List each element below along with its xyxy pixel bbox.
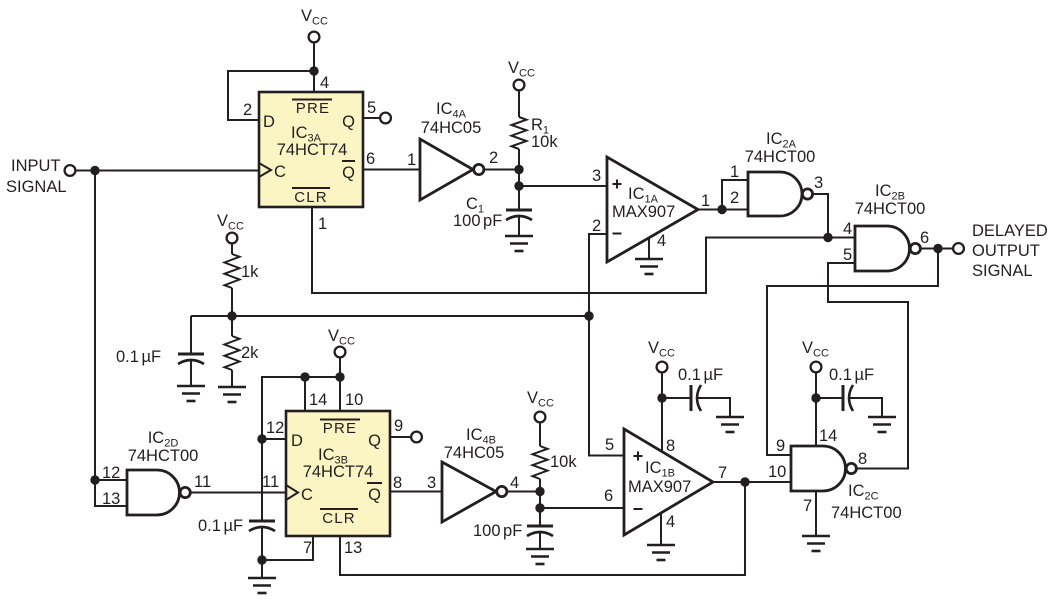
- svg-text:7: 7: [718, 464, 727, 482]
- svg-text:100pF: 100pF: [453, 212, 502, 230]
- svg-text:2: 2: [730, 189, 739, 207]
- resistor 10k (lower): [533, 423, 548, 526]
- svg-text:VCC: VCC: [527, 389, 554, 410]
- wire IC2C pin14: [815, 398, 817, 446]
- ground (IC3B pin7): [248, 578, 276, 593]
- svg-text:CLR: CLR: [294, 189, 328, 206]
- svg-text:5: 5: [843, 246, 852, 264]
- svg-text:IC4A: IC4A: [436, 100, 467, 121]
- svg-text:0.1µF: 0.1µF: [678, 366, 723, 384]
- node Vcc bypass junction (IC2C): [811, 393, 820, 402]
- svg-text:1k: 1k: [241, 263, 259, 281]
- svg-text:0.1µF: 0.1µF: [198, 517, 243, 535]
- wire D feedback loop: [228, 71, 314, 120]
- wire input vertical to IC2D: [95, 171, 127, 507]
- svg-text:CLR: CLR: [322, 510, 356, 527]
- capacitor 0.1 uF (IC2C bypass): [816, 385, 882, 417]
- svg-text:74HC05: 74HC05: [421, 119, 482, 137]
- wire IC2A output to wireA: [813, 194, 828, 238]
- terminal Q2 open: [411, 432, 422, 443]
- inverter IC4A 74HC05: [420, 100, 484, 200]
- svg-text:0.1µF: 0.1µF: [116, 348, 161, 366]
- svg-text:74HCT00: 74HCT00: [128, 447, 199, 465]
- svg-text:VCC: VCC: [217, 212, 244, 233]
- wire Q1bar to IC4A: [363, 169, 420, 171]
- svg-text:11: 11: [262, 473, 279, 491]
- capacitor 100 pF (lower): [527, 526, 553, 549]
- node IC2A input junction: [717, 205, 726, 214]
- svg-text:14: 14: [819, 427, 837, 445]
- svg-text:3: 3: [814, 174, 823, 192]
- terminal output open: [953, 243, 964, 254]
- svg-text:3: 3: [427, 474, 436, 492]
- NAND gate IC2D 74HCT00: [127, 429, 198, 515]
- svg-text:VCC: VCC: [802, 339, 829, 360]
- wire Q2 stub: [390, 436, 411, 438]
- svg-text:D: D: [263, 113, 275, 131]
- svg-text:2k: 2k: [241, 344, 259, 362]
- svg-text:1: 1: [318, 215, 327, 233]
- svg-text:9: 9: [394, 417, 403, 435]
- ground (IC1A pin4): [635, 259, 663, 274]
- node divider junction: [227, 311, 236, 320]
- wire CLR2 to IC1B output: [340, 482, 745, 575]
- wire to IC1B pin 6: [540, 507, 624, 509]
- wire IC2D pin12 stub: [95, 479, 127, 481]
- node pin14 junction: [300, 372, 309, 381]
- NAND gate IC2C 74HCT00: [791, 446, 902, 522]
- wire reference node horizontal: [191, 315, 589, 317]
- svg-text:PRE: PRE: [296, 100, 330, 117]
- svg-text:Q: Q: [342, 164, 355, 182]
- wire IC1B pin8: [661, 398, 663, 452]
- ground (under C1): [505, 236, 533, 251]
- node input junction: [90, 166, 99, 175]
- ground (under 100pF): [526, 549, 554, 564]
- svg-text:1: 1: [730, 163, 739, 181]
- svg-text:6: 6: [366, 150, 375, 168]
- comparator IC1A MAX907: [607, 157, 698, 262]
- wire IC4B out to 10k node: [507, 491, 540, 493]
- svg-text:8: 8: [858, 450, 867, 468]
- wire Vcc stub: [815, 373, 817, 398]
- svg-text:6: 6: [604, 487, 613, 505]
- node 10k bottom junction: [535, 487, 544, 496]
- svg-text:74HCT74: 74HCT74: [277, 141, 348, 159]
- flip-flop IC3A 74HCT74: [259, 92, 363, 207]
- wire input horizontal to IC3A clock: [76, 170, 259, 172]
- comparator IC1B MAX907: [624, 429, 713, 535]
- svg-text:13: 13: [102, 490, 120, 508]
- node pin10 junction: [335, 372, 344, 381]
- svg-text:74HCT00: 74HCT00: [745, 148, 816, 166]
- svg-text:4: 4: [843, 220, 852, 238]
- svg-text:INPUT: INPUT: [11, 157, 61, 175]
- capacitor 0.1 uF (divider): [178, 354, 204, 386]
- wire Q2bar to IC4B: [390, 491, 442, 493]
- svg-text:74HC05: 74HC05: [444, 444, 505, 462]
- svg-text:Q: Q: [368, 486, 381, 504]
- resistor 2k: [225, 316, 240, 387]
- svg-text:SIGNAL: SIGNAL: [972, 262, 1033, 280]
- svg-text:VCC: VCC: [648, 339, 675, 360]
- svg-text:VCC: VCC: [328, 327, 355, 348]
- svg-text:VCC: VCC: [508, 59, 535, 80]
- svg-text:OUTPUT: OUTPUT: [972, 242, 1040, 260]
- wire ground stub: [261, 560, 263, 578]
- svg-text:10: 10: [345, 391, 363, 409]
- node output junction: [933, 244, 942, 253]
- node IC2D input junction: [90, 475, 99, 484]
- svg-text:D: D: [291, 432, 303, 450]
- resistor 1k: [225, 244, 240, 316]
- wire IC1A pin2 to reference and IC1B pin5: [589, 234, 624, 456]
- svg-text:74HCT00: 74HCT00: [831, 504, 902, 522]
- node R1 bottom junction: [514, 165, 523, 174]
- wire IC2C output feedback to IC2B pin5: [828, 263, 908, 469]
- svg-text:10k: 10k: [531, 133, 558, 151]
- svg-text:9: 9: [776, 437, 785, 455]
- resistor R1 10k: [512, 91, 527, 210]
- ground (IC1B bypass): [716, 417, 744, 432]
- node Vcc bypass junction (IC1B): [657, 393, 666, 402]
- ground (IC1B pin4): [647, 545, 675, 560]
- svg-text:2: 2: [243, 101, 252, 119]
- svg-text:74HCT74: 74HCT74: [303, 463, 374, 481]
- svg-text:SIGNAL: SIGNAL: [6, 178, 67, 196]
- svg-text:IC2C: IC2C: [848, 482, 879, 503]
- svg-text:11: 11: [194, 473, 211, 491]
- wire Q1 output stub: [363, 117, 380, 119]
- wire IC1B ground stub: [660, 513, 662, 545]
- wire IC2B output: [921, 248, 954, 250]
- NAND gate IC2A 74HCT00: [745, 130, 816, 216]
- node C1 top junction: [514, 181, 523, 190]
- wire IC2B output feedback to IC2C pin9: [767, 249, 938, 456]
- svg-text:MAX907: MAX907: [612, 203, 675, 221]
- wire IC2C pin7: [815, 491, 817, 536]
- wire IC2A pin1 loop: [722, 180, 748, 210]
- svg-text:4: 4: [666, 513, 675, 531]
- node ground junction: [257, 555, 266, 564]
- svg-text:VCC: VCC: [301, 7, 328, 28]
- svg-text:12: 12: [266, 419, 284, 437]
- svg-text:8: 8: [666, 437, 675, 455]
- NAND gate IC2B 74HCT00: [855, 182, 926, 271]
- node D2 junction: [257, 434, 266, 443]
- wire pin 4 PRE: [313, 71, 315, 92]
- svg-text:Q: Q: [368, 432, 381, 450]
- svg-text:Q: Q: [342, 113, 355, 131]
- wire IC1B output: [713, 481, 791, 483]
- svg-text:5: 5: [367, 99, 376, 117]
- wire Vcc to PRE junction: [313, 43, 315, 71]
- svg-text:13: 13: [344, 539, 362, 557]
- wire Vcc stub: [661, 373, 663, 398]
- node reference to IC1A/IC1B junction: [584, 311, 593, 320]
- svg-text:8: 8: [393, 474, 402, 492]
- capacitor C1 100 pF: [506, 210, 532, 236]
- svg-text:4: 4: [657, 232, 666, 250]
- svg-text:3: 3: [592, 167, 601, 185]
- svg-text:0.1µF: 0.1µF: [829, 366, 874, 384]
- wire IC4A output to R1/C1 node: [484, 169, 519, 171]
- svg-text:10k: 10k: [550, 453, 577, 471]
- svg-text:74HCT00: 74HCT00: [855, 200, 926, 218]
- ground (IC2C bypass): [868, 417, 896, 432]
- svg-text:7: 7: [303, 539, 312, 557]
- terminal Q1 open: [380, 113, 391, 124]
- node IC1B output junction: [740, 477, 749, 486]
- node wireA/IC2A junction: [823, 233, 832, 242]
- input terminal: [65, 165, 76, 176]
- capacitor 0.1 uF (IC3B decoupling): [249, 521, 275, 560]
- ground (under 0.1uF divider): [177, 386, 205, 401]
- wire D2 stub: [262, 438, 286, 440]
- svg-text:1: 1: [701, 192, 710, 210]
- ground (IC2C pin7): [802, 536, 830, 551]
- svg-text:4: 4: [320, 74, 329, 92]
- node 100pF top junction: [535, 503, 544, 512]
- capacitor 0.1 uF (IC1B bypass): [662, 385, 730, 417]
- flip-flop IC3B 74HCT74: [286, 411, 390, 536]
- svg-text:12: 12: [102, 464, 120, 482]
- svg-text:6: 6: [920, 229, 929, 247]
- svg-text:DELAYED: DELAYED: [972, 222, 1048, 240]
- svg-text:2: 2: [489, 149, 498, 167]
- wire to IC1A pin 3: [519, 185, 607, 187]
- svg-text:C: C: [274, 163, 286, 181]
- svg-text:4: 4: [510, 474, 519, 492]
- wire pin 7 to ground node: [262, 536, 313, 560]
- svg-text:2: 2: [592, 217, 601, 235]
- wire IC2D output to clock2: [190, 492, 286, 494]
- svg-text:1: 1: [407, 151, 416, 169]
- svg-text:5: 5: [605, 436, 614, 454]
- wire down to 0.1uF: [190, 316, 192, 354]
- inverter IC4B 74HC05: [442, 426, 507, 522]
- svg-text:100pF: 100pF: [473, 522, 522, 540]
- svg-text:C: C: [301, 486, 313, 504]
- wire CLR1 to IC2B pin4: [312, 207, 855, 293]
- svg-text:10: 10: [768, 463, 786, 481]
- ground (under 2k): [218, 387, 246, 402]
- wire IC1A ground stub: [648, 238, 650, 259]
- svg-text:7: 7: [803, 497, 812, 515]
- wire Vcc rail IC3B: [262, 358, 340, 521]
- wire IC1A output: [698, 209, 748, 211]
- svg-text:PRE: PRE: [323, 420, 357, 437]
- svg-text:14: 14: [309, 391, 327, 409]
- svg-text:MAX907: MAX907: [628, 478, 691, 496]
- node PRE/D junction: [309, 66, 318, 75]
